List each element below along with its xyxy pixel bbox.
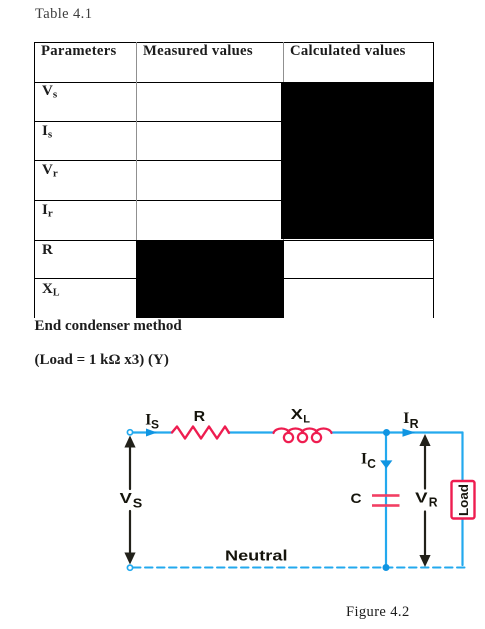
- svg-text:R: R: [429, 495, 438, 509]
- svg-text:Neutral: Neutral: [225, 548, 288, 565]
- svg-text:I: I: [361, 450, 367, 467]
- svg-text:V: V: [415, 489, 427, 506]
- svg-text:C: C: [367, 457, 376, 471]
- svg-text:X: X: [291, 407, 303, 423]
- svg-text:R: R: [410, 417, 419, 431]
- svg-text:S: S: [151, 418, 159, 432]
- svg-text:V: V: [120, 490, 132, 507]
- svg-text:Load: Load: [456, 484, 471, 516]
- svg-text:C: C: [351, 491, 362, 506]
- svg-text:I: I: [403, 410, 409, 427]
- svg-text:S: S: [133, 497, 143, 511]
- svg-text:R: R: [194, 409, 206, 425]
- svg-text:L: L: [303, 414, 310, 426]
